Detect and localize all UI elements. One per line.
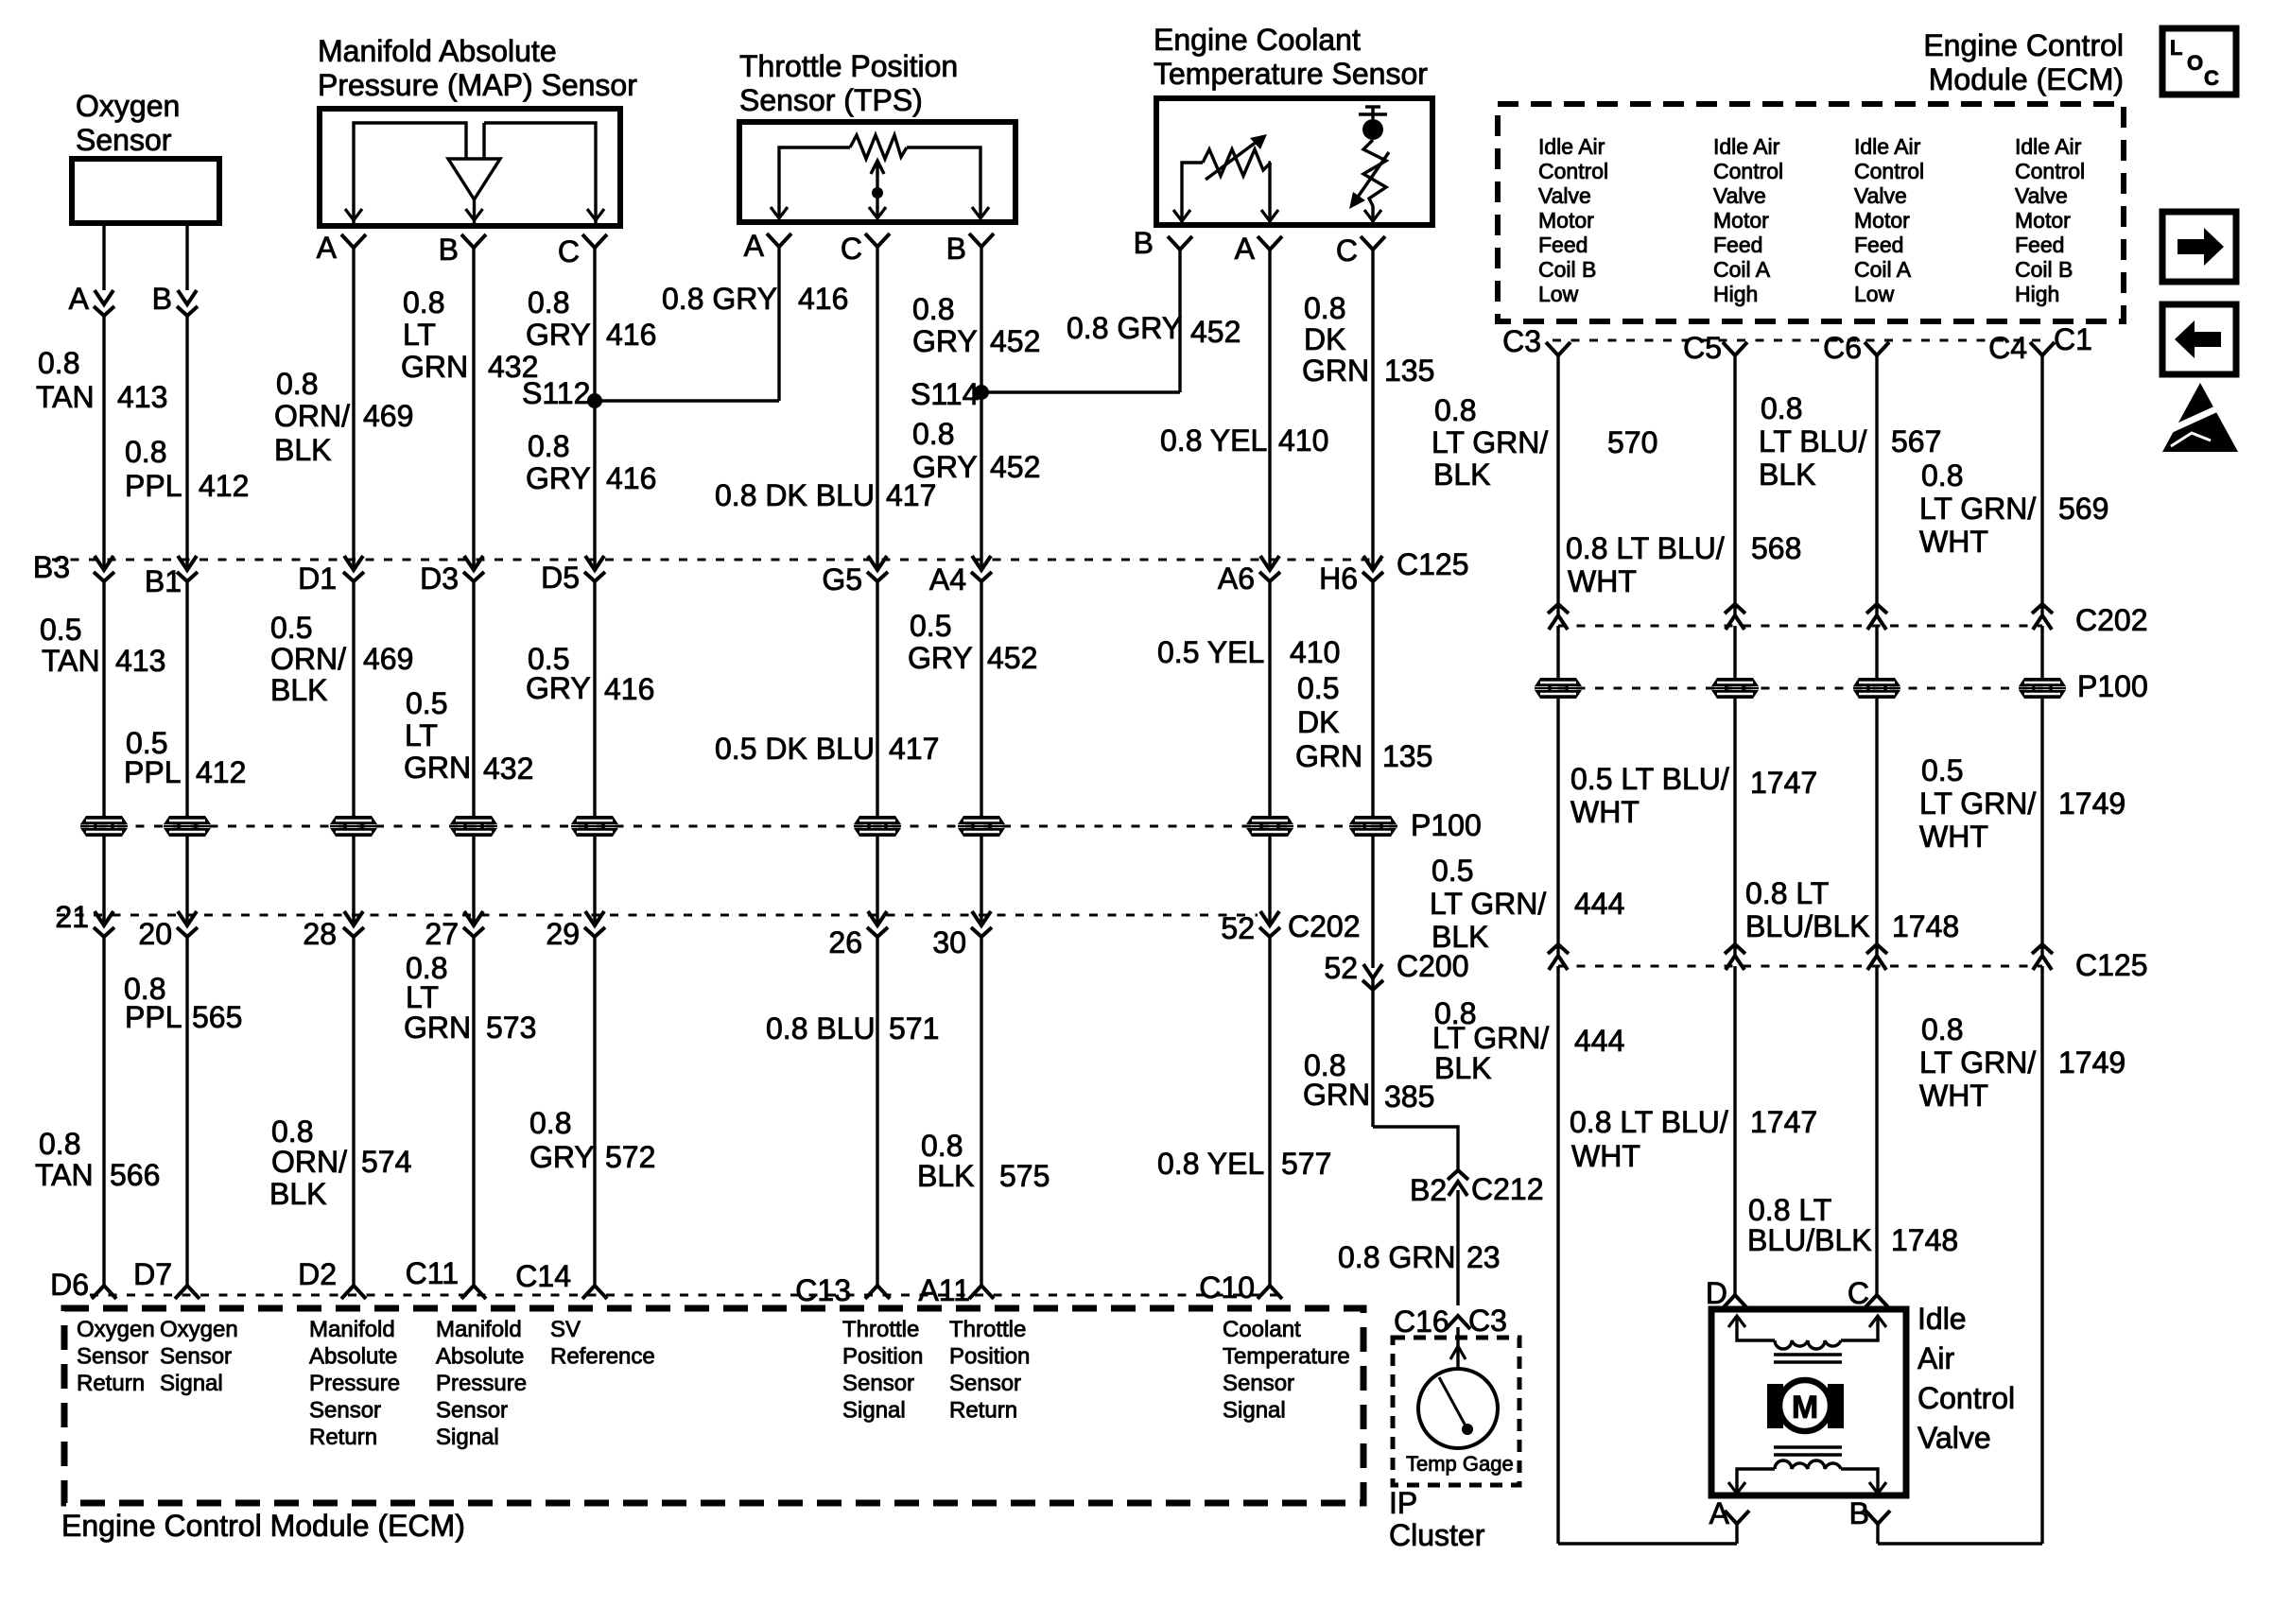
svg-text:567: 567 <box>1891 424 1941 458</box>
svg-text:C4: C4 <box>1988 331 2027 365</box>
svg-text:C125: C125 <box>1397 547 1469 581</box>
svg-text:0.8 BLU: 0.8 BLU <box>766 1011 876 1045</box>
wire TPS C (DK BLU 417 / BLU 571) <box>876 247 878 1286</box>
connector C125 name label (right) <box>2075 948 2148 982</box>
svg-text:B3: B3 <box>33 550 70 584</box>
svg-text:Return: Return <box>309 1425 377 1450</box>
svg-text:23: 23 <box>1466 1240 1501 1274</box>
svg-text:GRN: GRN <box>401 350 468 384</box>
ECT pin B label <box>1134 226 1154 260</box>
svg-text:0.8 YEL: 0.8 YEL <box>1160 423 1267 458</box>
svg-text:Valve: Valve <box>1854 183 1907 208</box>
svg-text:Engine Coolant: Engine Coolant <box>1154 23 1361 57</box>
svg-text:LT GRN/: LT GRN/ <box>1430 887 1546 921</box>
ECM connector C1 label <box>2054 322 2092 356</box>
ECM pin D2 glyph <box>341 1286 366 1299</box>
connector C125 pin B3 glyph <box>94 556 114 581</box>
C202 pin 27 label <box>425 917 459 951</box>
connector C202 glyph on c5 wire (right) <box>1725 604 1745 630</box>
ECM pin C6 label <box>1823 331 1862 365</box>
svg-text:Feed: Feed <box>1713 233 1762 257</box>
svg-text:Motor: Motor <box>1538 208 1594 233</box>
wire label 0.5 ORN/BLK 469 <box>270 611 413 707</box>
svg-text:M: M <box>1792 1390 1818 1425</box>
connector C202 pin 21 glyph <box>94 911 114 937</box>
wire label 0.8 LT GRN/WHT 1749 <box>1919 1012 2126 1113</box>
connector C125 glyph on c5 wire (right) <box>1725 944 1745 970</box>
svg-text:Sensor: Sensor <box>77 1344 148 1370</box>
TPS title <box>739 49 958 117</box>
ECM pin C4 glyph <box>2030 342 2055 355</box>
in-line connector P100 barrel on tpsC wire <box>854 816 901 837</box>
connector C202 pin 28 glyph <box>343 911 364 937</box>
ECT pin C glyph <box>1361 236 1385 250</box>
connector C125 pin D3 glyph <box>463 556 484 581</box>
svg-text:Sensor: Sensor <box>309 1398 381 1424</box>
ECT internal variable resistor <box>1173 134 1278 224</box>
oxygen sensor O2 box <box>72 159 219 223</box>
wire label 0.8 TAN 413 <box>36 346 167 414</box>
wire label 0.8 YEL 577 <box>1157 1147 1331 1181</box>
connector C202 name label (right) <box>2075 603 2148 637</box>
wire label 0.8 LT BLU/BLK 567 <box>1759 391 1941 492</box>
ECT pin C label <box>1336 233 1358 268</box>
IAC pin D glyph <box>1723 1295 1747 1308</box>
svg-text:WHT: WHT <box>1919 525 1988 559</box>
svg-text:D2: D2 <box>298 1257 337 1291</box>
wire label 0.5 LT GRN/BLK 444 <box>1430 854 1624 954</box>
svg-text:572: 572 <box>605 1140 655 1174</box>
svg-text:0.8 GRY: 0.8 GRY <box>662 282 777 316</box>
TPS pin A glyph <box>767 233 791 247</box>
svg-text:B: B <box>946 232 966 266</box>
svg-text:Feed: Feed <box>1538 233 1588 257</box>
wire label 0.5 YEL 410 <box>1157 635 1340 669</box>
wire MAP C (GRY 416/572) <box>593 248 596 1286</box>
svg-text:416: 416 <box>798 282 848 316</box>
connector P100 dashed line (left) <box>80 825 1397 828</box>
TPS pin B label <box>946 232 966 266</box>
svg-text:Cluster: Cluster <box>1389 1518 1485 1552</box>
svg-text:Sensor: Sensor <box>436 1398 508 1424</box>
temp gage inside IP cluster <box>1418 1346 1498 1448</box>
svg-text:Signal: Signal <box>160 1371 223 1396</box>
ECM dashed box (bottom) <box>64 1308 1363 1503</box>
svg-text:0.8 GRY: 0.8 GRY <box>1067 311 1182 345</box>
ECT pin A label <box>1235 232 1256 266</box>
svg-text:A: A <box>744 229 765 263</box>
svg-text:SV: SV <box>550 1317 581 1342</box>
svg-text:B1: B1 <box>145 564 182 598</box>
svg-text:0.8: 0.8 <box>912 417 954 451</box>
svg-text:GRN: GRN <box>404 751 471 785</box>
svg-text:Engine Control Module (ECM): Engine Control Module (ECM) <box>61 1509 465 1543</box>
wire MAP B (LT GRN 432/573) <box>472 248 475 1286</box>
wire label 0.8 GRN 385 <box>1303 1048 1434 1114</box>
wire label 0.8 PPL 565 <box>124 972 242 1034</box>
svg-text:0.8 LT BLU/: 0.8 LT BLU/ <box>1566 531 1725 565</box>
ECM pin C14 glyph <box>582 1286 607 1299</box>
wire label 0.8 LT BLU/WHT 1747 <box>1570 1105 1817 1173</box>
svg-text:Return: Return <box>77 1371 145 1396</box>
wire label 0.8 LT BLU/WHT 568 <box>1566 531 1801 598</box>
C125 pin A4 label <box>929 562 966 596</box>
svg-text:Valve: Valve <box>1538 183 1591 208</box>
svg-text:Module (ECM): Module (ECM) <box>1929 62 2124 96</box>
wire IAC coil A high (568/1747) from ECM pin C5 <box>1733 355 1736 1295</box>
connector C125 pin A4 glyph <box>971 556 992 581</box>
wire oxygen sensor B (PPL 412/565) <box>185 223 188 1286</box>
connector C3 pin C16 label <box>1394 1304 1449 1339</box>
wire S114 to ECT B horizontal <box>981 390 1180 393</box>
svg-text:Temperature: Temperature <box>1223 1344 1350 1370</box>
svg-text:410: 410 <box>1278 423 1328 458</box>
ECM bottom connector thin dashed line <box>90 1294 1286 1297</box>
svg-text:BLK: BLK <box>1433 458 1490 492</box>
svg-text:GRN: GRN <box>404 1011 471 1045</box>
svg-text:TAN: TAN <box>36 380 95 414</box>
svg-text:0.8: 0.8 <box>1921 1012 1963 1046</box>
svg-text:571: 571 <box>889 1011 939 1045</box>
svg-text:0.8: 0.8 <box>1761 391 1802 425</box>
svg-text:565: 565 <box>192 1000 242 1034</box>
IAC pin C label <box>1848 1276 1869 1310</box>
svg-text:Control: Control <box>1713 159 1783 183</box>
svg-text:Oxygen: Oxygen <box>160 1317 238 1342</box>
MAP pin B label <box>439 233 459 267</box>
C125 pin D5 label <box>541 561 580 595</box>
svg-text:0.8 LT: 0.8 LT <box>1745 876 1829 910</box>
ECM pin C4 label <box>1988 331 2027 365</box>
svg-text:GRY: GRY <box>526 461 591 495</box>
svg-text:DK: DK <box>1297 705 1339 739</box>
svg-text:BLU/BLK: BLU/BLK <box>1747 1223 1872 1257</box>
svg-text:410: 410 <box>1290 635 1340 669</box>
svg-text:573: 573 <box>486 1011 536 1045</box>
connector C212 pin B2 glyph <box>1448 1170 1468 1196</box>
connector P100 dashed line (right) <box>1558 687 2042 690</box>
wire label 0.5 LT BLU/WHT 1747 <box>1570 762 1817 829</box>
wire TPS B (GRY 452 / BLK 575) <box>980 247 982 1286</box>
svg-text:IP: IP <box>1389 1486 1417 1520</box>
ECM pin C3 label <box>1502 324 1541 358</box>
TPS box <box>739 122 1015 222</box>
svg-text:28: 28 <box>303 917 337 951</box>
splice S112 junction dot <box>587 393 602 408</box>
svg-text:432: 432 <box>483 752 533 786</box>
wire label 0.8 GRY 416 map upper <box>526 285 656 352</box>
oxygen pin B label <box>152 282 172 316</box>
svg-text:C14: C14 <box>515 1259 571 1293</box>
svg-text:Oxygen: Oxygen <box>77 1317 155 1342</box>
connector C212 pin B2 label <box>1410 1173 1447 1207</box>
MAP sensor box <box>320 109 620 226</box>
MAP sensor internal wiring and transducer triangle <box>345 123 604 223</box>
svg-text:BLK: BLK <box>1759 458 1815 492</box>
svg-text:High: High <box>1713 282 1758 306</box>
wire label 0.8 DK GRN 135 <box>1302 291 1434 388</box>
ECM pin C13 label <box>795 1273 851 1307</box>
svg-text:0.8 YEL: 0.8 YEL <box>1157 1147 1264 1181</box>
svg-text:469: 469 <box>363 642 413 676</box>
svg-text:Coil B: Coil B <box>1538 257 1596 282</box>
wire label 0.8 YEL 410 <box>1160 423 1328 458</box>
connector C125 pin D5 glyph <box>584 556 605 581</box>
svg-text:417: 417 <box>889 732 939 766</box>
svg-text:27: 27 <box>425 917 459 951</box>
C125 pin A6 label <box>1218 561 1255 596</box>
C125 pin H6 label <box>1319 561 1358 596</box>
C202 pin 29 label <box>546 917 580 951</box>
svg-text:LT GRN/: LT GRN/ <box>1919 492 2036 526</box>
svg-text:0.5 LT BLU/: 0.5 LT BLU/ <box>1570 762 1729 796</box>
svg-text:569: 569 <box>2058 492 2108 526</box>
svg-text:GRY: GRY <box>912 450 978 484</box>
in-line connector P100 barrel on c5 wire (right) <box>1711 678 1759 699</box>
connector C212 name label <box>1471 1172 1544 1206</box>
svg-text:PPL: PPL <box>125 1000 182 1034</box>
ECM pin C10 label <box>1199 1270 1255 1304</box>
svg-text:LT: LT <box>405 718 438 752</box>
svg-text:135: 135 <box>1382 739 1432 773</box>
wire label 0.8 GRN 23 <box>1338 1240 1501 1274</box>
svg-text:Signal: Signal <box>1223 1398 1286 1424</box>
wire label 0.8 GRY 452 tps-b upper <box>912 292 1040 358</box>
wire label 0.5 LT GRN 432 <box>404 686 533 786</box>
svg-text:Idle Air: Idle Air <box>2015 134 2082 159</box>
svg-text:Low: Low <box>1538 282 1579 306</box>
svg-text:26: 26 <box>828 925 862 959</box>
ECM pin C14 label <box>515 1259 571 1293</box>
ECM title (bottom) <box>61 1509 465 1543</box>
in-line connector P100 barrel on c3 wire (right) <box>1535 678 1582 699</box>
ECT sensor box <box>1156 98 1432 225</box>
svg-text:C1: C1 <box>2054 322 2092 356</box>
svg-text:Idle: Idle <box>1917 1302 1967 1336</box>
svg-text:GRY: GRY <box>529 1140 595 1174</box>
svg-text:0.8: 0.8 <box>1921 458 1963 492</box>
TPS pin C glyph <box>865 233 890 247</box>
connector C125 glyph on c3 wire (right) <box>1548 944 1569 970</box>
svg-text:BLK: BLK <box>274 433 331 467</box>
oxygen sensor title <box>76 89 180 157</box>
svg-text:L: L <box>2170 36 2182 60</box>
svg-text:0.8: 0.8 <box>276 367 318 401</box>
ECM pin A11 glyph <box>969 1286 994 1299</box>
ECM IAC coil B low label <box>1538 134 1608 306</box>
svg-text:412: 412 <box>196 755 246 789</box>
svg-text:PPL: PPL <box>125 469 182 503</box>
wire label 0.8 GRY 416 tps-a <box>662 282 848 316</box>
in-line connector P100 barrel on mapB wire <box>450 816 497 837</box>
svg-text:Motor: Motor <box>1713 208 1769 233</box>
svg-text:D1: D1 <box>298 561 337 596</box>
svg-text:C: C <box>558 234 580 268</box>
svg-text:A6: A6 <box>1218 561 1255 596</box>
wire label 0.5 DK BLU 417 <box>715 732 939 766</box>
svg-text:GRN: GRN <box>1303 1078 1370 1112</box>
svg-text:B: B <box>152 282 172 316</box>
IAC pin C glyph <box>1865 1295 1889 1308</box>
MAP pin B glyph <box>461 234 486 248</box>
svg-text:Sensor: Sensor <box>160 1344 232 1370</box>
svg-text:A: A <box>1709 1496 1730 1530</box>
svg-text:0.5: 0.5 <box>910 609 951 643</box>
svg-text:C202: C202 <box>1288 909 1361 943</box>
svg-text:Low: Low <box>1854 282 1895 306</box>
IP cluster dashed box <box>1393 1338 1519 1485</box>
TPS wiper arm with junction dot <box>869 161 886 218</box>
svg-text:D5: D5 <box>541 561 580 595</box>
IAC pin B label <box>1849 1496 1869 1530</box>
wire ECT B vertical (GRY 452) <box>1178 250 1181 392</box>
ECM dashed box (top right) <box>1498 104 2124 321</box>
wire label 0.8 BLU 571 <box>766 1011 939 1045</box>
wire label 0.8 GRY 452 ect-b <box>1067 311 1241 349</box>
svg-text:C: C <box>841 232 862 266</box>
svg-text:Feed: Feed <box>2015 233 2064 257</box>
svg-text:PPL: PPL <box>124 755 181 789</box>
svg-text:0.5: 0.5 <box>1431 854 1473 888</box>
connector C202 pin 52 glyph <box>1259 911 1280 937</box>
svg-text:Position: Position <box>949 1344 1030 1370</box>
wire oxygen sensor A (TAN 413/566) <box>102 223 105 1286</box>
svg-text:0.8: 0.8 <box>1304 291 1345 325</box>
ECM top connector thin dashed line <box>1553 339 2042 342</box>
svg-text:0.8: 0.8 <box>38 346 79 380</box>
LOC legend icon <box>2162 28 2236 95</box>
svg-text:Sensor: Sensor <box>1223 1371 1294 1396</box>
svg-text:413: 413 <box>115 644 165 678</box>
connector C202 glyph on c6 wire (right) <box>1866 604 1887 630</box>
svg-text:Coil B: Coil B <box>2015 257 2073 282</box>
wire label 0.8 GRY 572 <box>529 1106 655 1174</box>
C202 pin 52 label <box>1221 911 1255 945</box>
C202 pin 28 label <box>303 917 337 951</box>
connector C125 glyph on c6 wire (right) <box>1866 944 1887 970</box>
connector C125 pin A6 glyph <box>1259 556 1280 581</box>
svg-text:Control: Control <box>1538 159 1608 183</box>
svg-text:577: 577 <box>1281 1147 1331 1181</box>
forward arrow icon <box>2162 212 2236 282</box>
svg-text:0.5: 0.5 <box>406 686 447 720</box>
svg-text:Coil A: Coil A <box>1854 257 1912 282</box>
ECM IAC coil A low label <box>1854 134 1924 306</box>
svg-text:Reference: Reference <box>550 1344 655 1370</box>
svg-text:0.8: 0.8 <box>528 429 569 463</box>
svg-text:0.8 LT: 0.8 LT <box>1748 1193 1831 1227</box>
C202 pin 26 label <box>828 925 862 959</box>
svg-text:Pressure: Pressure <box>309 1371 400 1396</box>
C125 pin D1 label <box>298 561 337 596</box>
ECM oxygen sensor return label <box>77 1317 155 1396</box>
connector C125 name label <box>1397 547 1469 581</box>
svg-text:0.8: 0.8 <box>1434 393 1476 427</box>
svg-text:1749: 1749 <box>2058 1045 2126 1080</box>
svg-text:1747: 1747 <box>1750 1105 1817 1139</box>
svg-text:BLK: BLK <box>1431 920 1488 954</box>
ECM SV reference label <box>550 1317 655 1370</box>
svg-text:0.8 GRN: 0.8 GRN <box>1338 1240 1455 1274</box>
svg-text:Throttle: Throttle <box>842 1317 919 1342</box>
svg-text:568: 568 <box>1751 531 1801 565</box>
svg-text:GRN: GRN <box>1295 739 1362 773</box>
svg-text:GRY: GRY <box>908 641 973 675</box>
wire label 0.5 PPL 412 <box>124 726 246 789</box>
in-line connector P100 barrel on mapA wire <box>330 816 377 837</box>
ECM pin C11 label <box>406 1256 459 1290</box>
MAP pin C glyph <box>582 234 607 248</box>
wire label 0.8 PPL 412 <box>125 435 249 503</box>
svg-text:Valve: Valve <box>1713 183 1766 208</box>
IP cluster label <box>1389 1486 1485 1552</box>
connector C202 name label (left) <box>1288 909 1361 943</box>
svg-text:1747: 1747 <box>1750 766 1817 800</box>
svg-text:Absolute: Absolute <box>436 1344 524 1370</box>
svg-text:Signal: Signal <box>436 1425 499 1450</box>
svg-text:Manifold Absolute: Manifold Absolute <box>318 34 557 68</box>
ECM title (top right) <box>1923 28 2124 96</box>
TPS pin B glyph <box>969 233 994 247</box>
svg-text:C202: C202 <box>2075 603 2148 637</box>
svg-text:0.5 DK BLU: 0.5 DK BLU <box>715 732 875 766</box>
wire label 0.8 LT GRN 432 <box>401 285 538 384</box>
connector half glyphs oxygen B <box>177 290 198 316</box>
IAC coil A winding (top) <box>1728 1316 1886 1362</box>
svg-text:0.5: 0.5 <box>1921 753 1963 787</box>
splice S114 junction dot <box>974 385 989 400</box>
svg-text:A4: A4 <box>929 562 966 596</box>
ECM oxygen sensor signal label <box>160 1317 238 1396</box>
ECT internal thermistor with dot terminal <box>1349 106 1389 224</box>
connector C202 pin 27 glyph <box>463 911 484 937</box>
svg-text:C3: C3 <box>1468 1304 1507 1338</box>
connector C200 pin 52 glyph <box>1362 964 1383 990</box>
svg-text:BLK: BLK <box>917 1159 974 1193</box>
svg-text:432: 432 <box>488 350 538 384</box>
svg-text:LT GRN/: LT GRN/ <box>1919 786 2036 821</box>
MAP pin A label <box>317 231 338 265</box>
svg-text:D6: D6 <box>50 1268 89 1302</box>
svg-text:A: A <box>317 231 338 265</box>
wire label 0.8 TAN 566 <box>35 1127 160 1192</box>
svg-text:Idle Air: Idle Air <box>1854 134 1921 159</box>
svg-text:Position: Position <box>842 1344 923 1370</box>
svg-text:0.8: 0.8 <box>39 1127 80 1161</box>
IAC valve label <box>1917 1302 2015 1455</box>
svg-text:Control: Control <box>1854 159 1924 183</box>
ECM pin D2 label <box>298 1257 337 1291</box>
svg-text:BLU/BLK: BLU/BLK <box>1745 909 1870 943</box>
wire label 0.8 LT GRN 573 <box>404 951 536 1045</box>
ECM pin A11 label <box>918 1273 970 1307</box>
svg-text:Pressure (MAP) Sensor: Pressure (MAP) Sensor <box>318 68 637 102</box>
ECM MAP signal label <box>436 1317 527 1450</box>
svg-text:575: 575 <box>999 1159 1050 1193</box>
ECM pin D7 glyph <box>175 1286 200 1299</box>
svg-text:135: 135 <box>1384 354 1434 388</box>
svg-text:Valve: Valve <box>2015 183 2068 208</box>
svg-text:C5: C5 <box>1683 331 1722 365</box>
wire label 0.5 GRY 452 <box>908 609 1037 675</box>
svg-text:29: 29 <box>546 917 580 951</box>
svg-text:BLK: BLK <box>1434 1051 1491 1085</box>
wire ECT A (YEL 410/577) <box>1268 250 1271 1286</box>
svg-text:0.8 DK BLU: 0.8 DK BLU <box>715 478 875 512</box>
svg-text:1748: 1748 <box>1892 909 1959 943</box>
svg-text:C212: C212 <box>1471 1172 1544 1206</box>
svg-text:C13: C13 <box>795 1273 851 1307</box>
